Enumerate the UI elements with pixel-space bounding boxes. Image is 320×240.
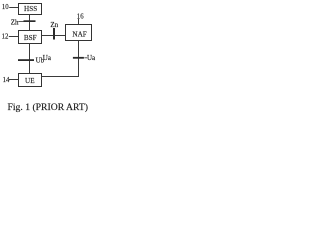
svg-text:Ua: Ua <box>87 54 96 62</box>
block BSF <box>19 31 42 44</box>
leader line for 14 <box>9 79 19 81</box>
svg-text:HSS: HSS <box>24 5 37 13</box>
svg-text:NAF: NAF <box>72 30 86 38</box>
block UE <box>19 74 42 87</box>
leader line for Ua <box>84 57 87 59</box>
svg-text:BSF: BSF <box>24 34 37 42</box>
svg-text:Zn: Zn <box>50 21 58 29</box>
svg-text:Ua: Ua <box>43 54 52 62</box>
svg-text:Fig. 1 (PRIOR ART): Fig. 1 (PRIOR ART) <box>8 102 89 113</box>
wire UE-NAF <box>42 76 80 78</box>
block HSS <box>19 4 42 15</box>
svg-text:12: 12 <box>2 33 9 40</box>
svg-text:UE: UE <box>25 77 35 85</box>
wire BSF-NAF <box>42 35 66 37</box>
background <box>0 0 97 120</box>
leader line for 10 <box>9 7 18 9</box>
wire HSS-BSF <box>29 15 31 31</box>
wire NAF-down <box>78 41 80 77</box>
wire BSF-UE <box>29 44 31 74</box>
svg-text:14: 14 <box>3 77 10 84</box>
leader line for 16 <box>78 19 80 25</box>
interface marker Zh <box>24 20 36 22</box>
interface marker Ub <box>18 59 34 61</box>
interface marker Ua <box>73 57 84 59</box>
leader line for 12 <box>9 36 19 38</box>
interface marker Zn <box>53 28 55 40</box>
svg-text:10: 10 <box>2 4 9 11</box>
svg-text:Zh: Zh <box>11 18 19 26</box>
block NAF <box>66 25 92 41</box>
svg-text:16: 16 <box>77 13 84 20</box>
leader line for Zh <box>18 21 23 23</box>
